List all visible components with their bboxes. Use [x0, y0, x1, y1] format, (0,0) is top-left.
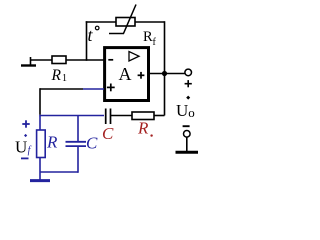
- svg-text:o: o: [188, 105, 195, 120]
- svg-text:R: R: [143, 29, 153, 45]
- ground GND2 (blue, bottom left): [30, 179, 50, 182]
- red subscript dot: [150, 134, 152, 136]
- wire noninverting input (blue tip): [83, 88, 104, 90]
- wire ground to R1: [31, 59, 53, 61]
- op-amp minus input sign: [108, 59, 113, 61]
- svg-text:R: R: [137, 118, 149, 137]
- svg-text:f: f: [153, 37, 157, 48]
- node output junction: [162, 71, 167, 76]
- wire blue down to R: [39, 116, 41, 131]
- svg-text:1: 1: [62, 73, 67, 84]
- capacitor C (blue) top plate: [66, 141, 87, 143]
- thermistor diagonal stroke: [124, 5, 137, 34]
- wire feedback left vertical: [86, 21, 88, 61]
- svg-text:R: R: [46, 133, 58, 152]
- ground GND3 (bottom right): [176, 151, 199, 154]
- svg-text:R: R: [51, 67, 62, 84]
- wire feedback top left segment: [86, 21, 116, 23]
- op-amp plus input sign: [107, 84, 115, 92]
- thermistor diagonal foot: [109, 33, 124, 35]
- wire blue bottom link: [40, 171, 78, 173]
- label + (Uf polarity, blue): [22, 120, 29, 127]
- label − (lower terminal): [183, 125, 190, 127]
- svg-text:C: C: [86, 134, 98, 153]
- svg-text:t: t: [88, 25, 94, 45]
- wire output: [149, 73, 185, 75]
- svg-text:U: U: [176, 101, 188, 120]
- resistor R1: [52, 56, 66, 64]
- wire noninverting input horizontal (black part): [40, 88, 83, 90]
- capacitor C (series, red label) left plate: [105, 109, 107, 125]
- wire blue bottom horizontal: [39, 115, 104, 117]
- wire noninverting down vertical: [39, 88, 41, 115]
- svg-text:C: C: [102, 124, 114, 143]
- op-amp U1 box: [105, 48, 149, 101]
- wire cap to resistor: [111, 115, 133, 117]
- wire blue cap bottom vertical: [77, 147, 79, 173]
- op-amp gain triangle: [129, 52, 139, 62]
- label − (Uf polarity, blue): [21, 157, 29, 159]
- svg-text:A: A: [119, 64, 132, 84]
- thermistor Rf body: [116, 18, 135, 27]
- terminal Uo+ circle: [185, 69, 192, 76]
- terminal Uo− circle: [184, 131, 191, 138]
- wire blue cap top vertical: [77, 116, 79, 142]
- wire R to ground: [39, 158, 41, 180]
- wire R1 to inverting input: [66, 59, 104, 61]
- label + (output terminal): [185, 80, 192, 87]
- svg-text:f: f: [28, 145, 32, 156]
- ground GND1 (left, near R1): [21, 57, 36, 66]
- polarity dot above Uo: [186, 96, 190, 100]
- op-amp output plus sign: [138, 72, 145, 79]
- resistor R (series, red label): [132, 112, 154, 120]
- capacitor C (series) right plate: [110, 109, 112, 125]
- capacitor C (blue) bottom plate: [66, 145, 87, 147]
- resistor R (blue, input): [37, 130, 46, 158]
- polarity dot above Uf: [24, 134, 27, 137]
- wire resistor to feedback vertical: [154, 115, 165, 117]
- wire feedback top right segment: [135, 21, 165, 23]
- svg-text:U: U: [15, 138, 27, 157]
- wire feedback right vertical: [164, 21, 166, 115]
- wire terminal to ground: [186, 137, 188, 151]
